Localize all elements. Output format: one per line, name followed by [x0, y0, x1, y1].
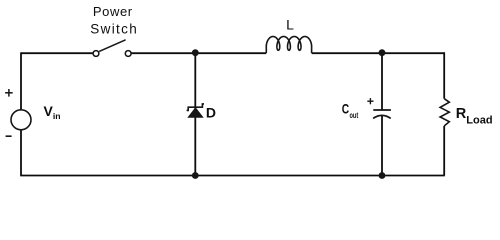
svg-text:D: D — [206, 105, 216, 121]
switch SW1 lever — [99, 40, 125, 52]
node junction dot at diode bottom — [192, 172, 199, 179]
wire right rail lower — [443, 126, 445, 176]
svg-text:RLoad: RLoad — [456, 106, 493, 126]
node junction dot at diode top — [192, 49, 199, 56]
switch SW1 right contact — [125, 51, 131, 57]
diode D triangle (anode) — [188, 108, 202, 117]
node junction dot at capacitor bottom — [379, 172, 386, 179]
node junction dot at capacitor top — [379, 49, 386, 56]
svg-text:L: L — [286, 17, 294, 33]
svg-text:Switch: Switch — [90, 22, 138, 37]
wire bottom rail — [20, 175, 445, 177]
wire left rail lower — [20, 130, 22, 176]
wire right rail upper — [443, 52, 445, 98]
wire switch to inductor — [131, 52, 266, 54]
svg-text:Vin: Vin — [44, 103, 61, 121]
resistor RLoad zigzag — [440, 99, 449, 126]
wire left rail upper — [20, 52, 22, 110]
wire capacitor branch upper — [381, 53, 383, 110]
voltage source V1 circle — [11, 110, 31, 130]
wire inductor to top-right corner — [312, 52, 445, 54]
capacitor plus sign — [367, 98, 373, 104]
wire diode branch — [194, 53, 196, 175]
svg-text:Power: Power — [93, 4, 133, 19]
diode D schottky cathode bar — [187, 104, 204, 111]
voltage source plus sign — [5, 89, 13, 97]
svg-text:Cout: Cout — [342, 101, 358, 120]
wire capacitor branch lower — [381, 116, 383, 176]
switch SW1 left contact — [93, 51, 99, 57]
inductor L coil — [266, 37, 311, 53]
voltage source minus sign — [6, 135, 12, 137]
wire top-left horizontal — [21, 52, 93, 54]
capacitor Cout top plate — [373, 109, 391, 111]
capacitor Cout curved bottom plate — [373, 115, 391, 118]
